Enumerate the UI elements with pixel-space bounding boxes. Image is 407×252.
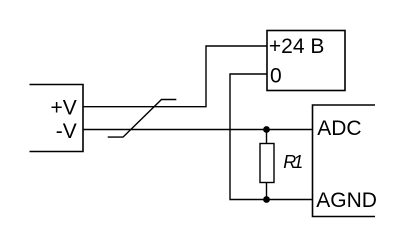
- wire 0 to AGND: [230, 74, 313, 200]
- junction dot node AGND/0: [263, 196, 270, 203]
- svg-text:AGND: AGND: [316, 189, 377, 212]
- wire resistor top lead: [266, 130, 268, 144]
- wire -V to ADC: [83, 129, 313, 131]
- svg-text:ADC: ADC: [317, 117, 361, 140]
- svg-text:-V: -V: [56, 120, 77, 143]
- cable break symbol (slash with hooks): [108, 100, 177, 138]
- svg-text:0: 0: [270, 64, 282, 87]
- wire +V to +24V: [83, 46, 267, 107]
- resistor R1 body: [260, 144, 274, 183]
- svg-text:+V: +V: [51, 97, 77, 120]
- svg-text:R1: R1: [283, 152, 303, 172]
- power supply box +24V: [267, 31, 345, 91]
- sensor box U? (left, open left side): [30, 85, 84, 152]
- ADC box (right, open right side): [313, 105, 376, 217]
- junction dot node ADC/-V: [263, 126, 270, 133]
- wire resistor bottom lead: [266, 183, 268, 200]
- svg-text:+24 В: +24 В: [269, 35, 324, 58]
